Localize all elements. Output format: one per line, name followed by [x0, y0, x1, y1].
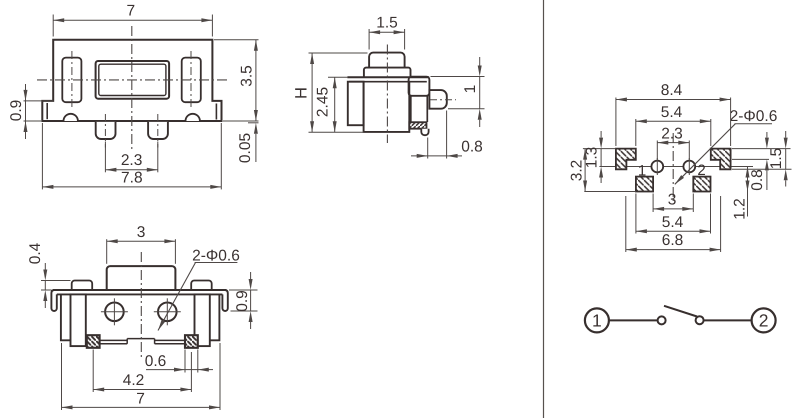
right pin centreline	[157, 114, 159, 148]
left metal side plate	[71, 294, 86, 346]
svg-text:0.9: 0.9	[8, 100, 25, 122]
body right edge (top view)	[210, 294, 220, 340]
dimension 2.45 (body height)	[315, 77, 349, 132]
dimension 0.05 (standoff)	[237, 123, 259, 163]
dimension 0.8 (right)	[732, 132, 769, 191]
svg-text:2.3: 2.3	[661, 125, 683, 142]
left slot centreline	[71, 51, 73, 109]
dimension 1 (side pin height)	[431, 57, 485, 127]
right slot centreline	[190, 51, 192, 109]
pad bottom-right (hatched)	[693, 177, 710, 192]
left bottom notch (dimple)	[64, 114, 78, 121]
dimension 7 (top width)	[53, 3, 212, 37]
dimension H (total height)	[293, 53, 368, 132]
left side slot	[62, 58, 81, 103]
svg-text:2.3: 2.3	[121, 152, 143, 169]
svg-text:0.4: 0.4	[27, 242, 44, 264]
dimension 3.5 (body height)	[214, 40, 259, 121]
svg-text:1.2: 1.2	[732, 198, 749, 220]
right mounting-lug inner edge tick	[215, 104, 217, 120]
left wing hook	[51, 290, 56, 311]
svg-text:2: 2	[697, 162, 705, 179]
switch body outline (front view)	[42, 40, 221, 121]
right bottom notch (dimple)	[186, 114, 200, 121]
right solder pin (front view)	[148, 122, 168, 139]
dimension 3 (keycap width, top view)	[107, 224, 176, 264]
dimension 5.4 bottom	[636, 194, 711, 234]
svg-text:0.8: 0.8	[461, 139, 483, 156]
svg-text:7: 7	[126, 3, 135, 20]
svg-text:0.9: 0.9	[234, 290, 251, 312]
svg-text:1: 1	[638, 163, 646, 180]
top view vertical centreline	[140, 252, 142, 360]
body left edge (top view)	[61, 294, 71, 340]
contact point left	[658, 316, 666, 324]
wire from terminal 1 to contact	[609, 319, 658, 321]
dimension 1.5 (right)	[732, 131, 792, 187]
left pin centreline	[104, 114, 106, 148]
left rivet hole	[101, 298, 128, 325]
horizontal centreline	[37, 79, 228, 81]
contact point right	[696, 316, 704, 324]
left mounting-lug inner edge tick	[46, 103, 48, 119]
solder lug foot	[421, 129, 428, 136]
pad top-left (hatched L)	[616, 149, 636, 170]
dimension 3 (bottom pads gap)	[653, 192, 693, 213]
dimension 0.4 (tab height)	[27, 242, 71, 308]
svg-text:2-Φ0.6: 2-Φ0.6	[192, 248, 240, 265]
hole centre line (horizontal)	[599, 166, 753, 168]
right rivet hole	[154, 298, 181, 325]
svg-text:5.4: 5.4	[661, 104, 683, 121]
dimension 7 (body width, top view)	[62, 343, 221, 410]
terminal right edge below housing	[426, 96, 428, 122]
side pin centreline	[430, 99, 456, 101]
svg-text:6.8: 6.8	[662, 232, 684, 249]
dimension 1.2 (right)	[732, 167, 750, 220]
centre body (side view)	[364, 82, 410, 132]
side pin (side view)	[429, 90, 446, 109]
centre window inner frame	[99, 64, 166, 95]
switch actuator lever	[664, 306, 697, 317]
left solder pin (front view)	[96, 122, 116, 139]
metal frame lower edge	[57, 293, 223, 295]
svg-text:1.3: 1.3	[584, 147, 601, 169]
svg-text:8.4: 8.4	[661, 82, 683, 99]
terminal 1	[585, 308, 609, 332]
label 2-phi0.6 with leader (holes)	[675, 108, 778, 185]
dimension 0.6 (contact width)	[145, 350, 213, 373]
svg-text:3: 3	[668, 192, 677, 209]
metal frame top edge	[53, 289, 226, 291]
dimension 1.3 (left)	[584, 131, 604, 183]
right wing hook	[222, 290, 227, 311]
plunger step (side view)	[364, 68, 411, 78]
hole 1 (phi 0.6)	[651, 158, 663, 175]
dimension 0.8 (lug offset)	[411, 111, 483, 159]
divider line between drawing views and schematic column	[543, 0, 545, 418]
svg-text:4.2: 4.2	[123, 372, 145, 389]
pad number 2	[697, 162, 705, 179]
dimension 0.9 (wing hook depth, top view)	[229, 272, 258, 329]
plunger cap (side view)	[369, 53, 405, 68]
svg-text:2.45: 2.45	[315, 87, 332, 117]
dimension 6.8	[626, 196, 721, 252]
left end cap (side view)	[348, 82, 364, 126]
svg-text:3: 3	[137, 224, 146, 241]
svg-text:1: 1	[592, 311, 602, 331]
svg-text:1.5: 1.5	[768, 148, 785, 170]
bent solder lug (hatched section)	[409, 122, 426, 129]
svg-text:H: H	[293, 87, 311, 99]
dimension 0.9 (left flange height)	[8, 84, 54, 139]
terminal 2	[752, 308, 776, 332]
centre window outer frame	[96, 61, 170, 99]
dimension 3.2 (left)	[569, 149, 636, 192]
body top plate line	[347, 76, 429, 78]
right side slot	[182, 58, 201, 103]
terminal left edge below housing	[410, 96, 412, 122]
dimension 8.4	[616, 82, 731, 146]
bottom edge bands	[100, 339, 185, 344]
svg-text:0.05: 0.05	[237, 133, 254, 163]
right contact housing (side view)	[409, 77, 430, 96]
dimension 5.4 top	[636, 104, 711, 146]
dimension 4.2 (contact pitch)	[93, 350, 191, 393]
svg-text:0.6: 0.6	[145, 353, 167, 370]
svg-text:1.5: 1.5	[376, 15, 398, 32]
body top plate lower line	[349, 81, 427, 83]
svg-text:7: 7	[136, 391, 145, 408]
pad bottom-left (hatched)	[636, 177, 653, 192]
dimension 7.8 (overall width)	[42, 123, 221, 189]
dimension 2.3 (pin pitch)	[105, 142, 157, 173]
pad top-right (hatched L)	[711, 149, 731, 170]
hole 2 (phi 0.6)	[683, 158, 695, 175]
svg-text:2: 2	[759, 311, 769, 331]
left contact section (hatched)	[87, 335, 100, 348]
keycap (top view)	[107, 266, 176, 290]
left top tab	[72, 281, 93, 290]
dimension 2.3 (hole pitch)	[657, 125, 689, 159]
svg-text:5.4: 5.4	[662, 214, 684, 231]
label 2-phi0.6 with leader (top view holes)	[158, 248, 240, 331]
vertical centreline	[131, 26, 133, 150]
right contact section (hatched)	[185, 335, 198, 348]
dimension 1.5 (plunger width)	[369, 15, 405, 50]
svg-text:7.8: 7.8	[121, 169, 143, 186]
svg-text:1: 1	[462, 85, 479, 94]
svg-text:0.8: 0.8	[749, 169, 766, 191]
side view vertical centreline	[386, 45, 388, 144]
pad number 1	[638, 163, 646, 180]
svg-text:2-Φ0.6: 2-Φ0.6	[730, 108, 778, 125]
right metal side plate	[195, 294, 210, 346]
right top tab	[191, 281, 212, 290]
land pattern centreline	[672, 133, 674, 201]
svg-text:3.5: 3.5	[239, 65, 256, 87]
wire from contact to terminal 2	[704, 319, 752, 321]
